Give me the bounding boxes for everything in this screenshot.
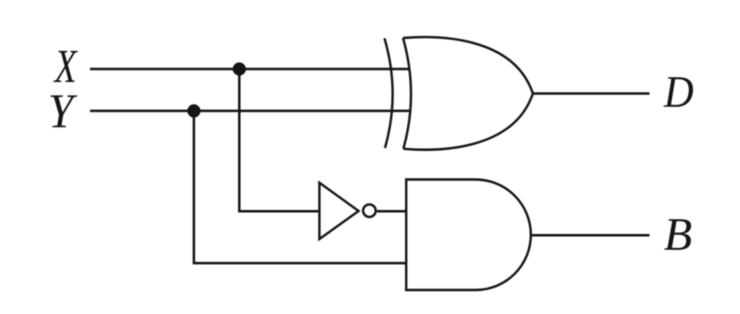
wire XOR output to D: [533, 92, 650, 95]
junction dot on Y wire: [187, 104, 200, 117]
node Y input label: [51, 95, 77, 127]
wire X input horizontal: [90, 68, 410, 71]
and gate U3 body: [406, 180, 531, 291]
node D output label: [663, 77, 693, 107]
junction dot on X wire: [233, 62, 246, 75]
wire Y branch down to AND lower input: [194, 111, 406, 263]
wire Y input horizontal: [90, 110, 410, 113]
wire inverter output to AND upper input: [377, 210, 406, 213]
xor gate U1 input side arc: [385, 38, 393, 148]
node B output label: [664, 219, 691, 250]
xor gate U1 body: [403, 37, 533, 150]
wire AND output to B: [531, 234, 650, 237]
inverter U2 output bubble: [363, 204, 376, 217]
node X input label: [53, 51, 78, 82]
inverter U2 triangle: [319, 183, 358, 239]
wire X branch down to inverter input: [239, 69, 320, 211]
